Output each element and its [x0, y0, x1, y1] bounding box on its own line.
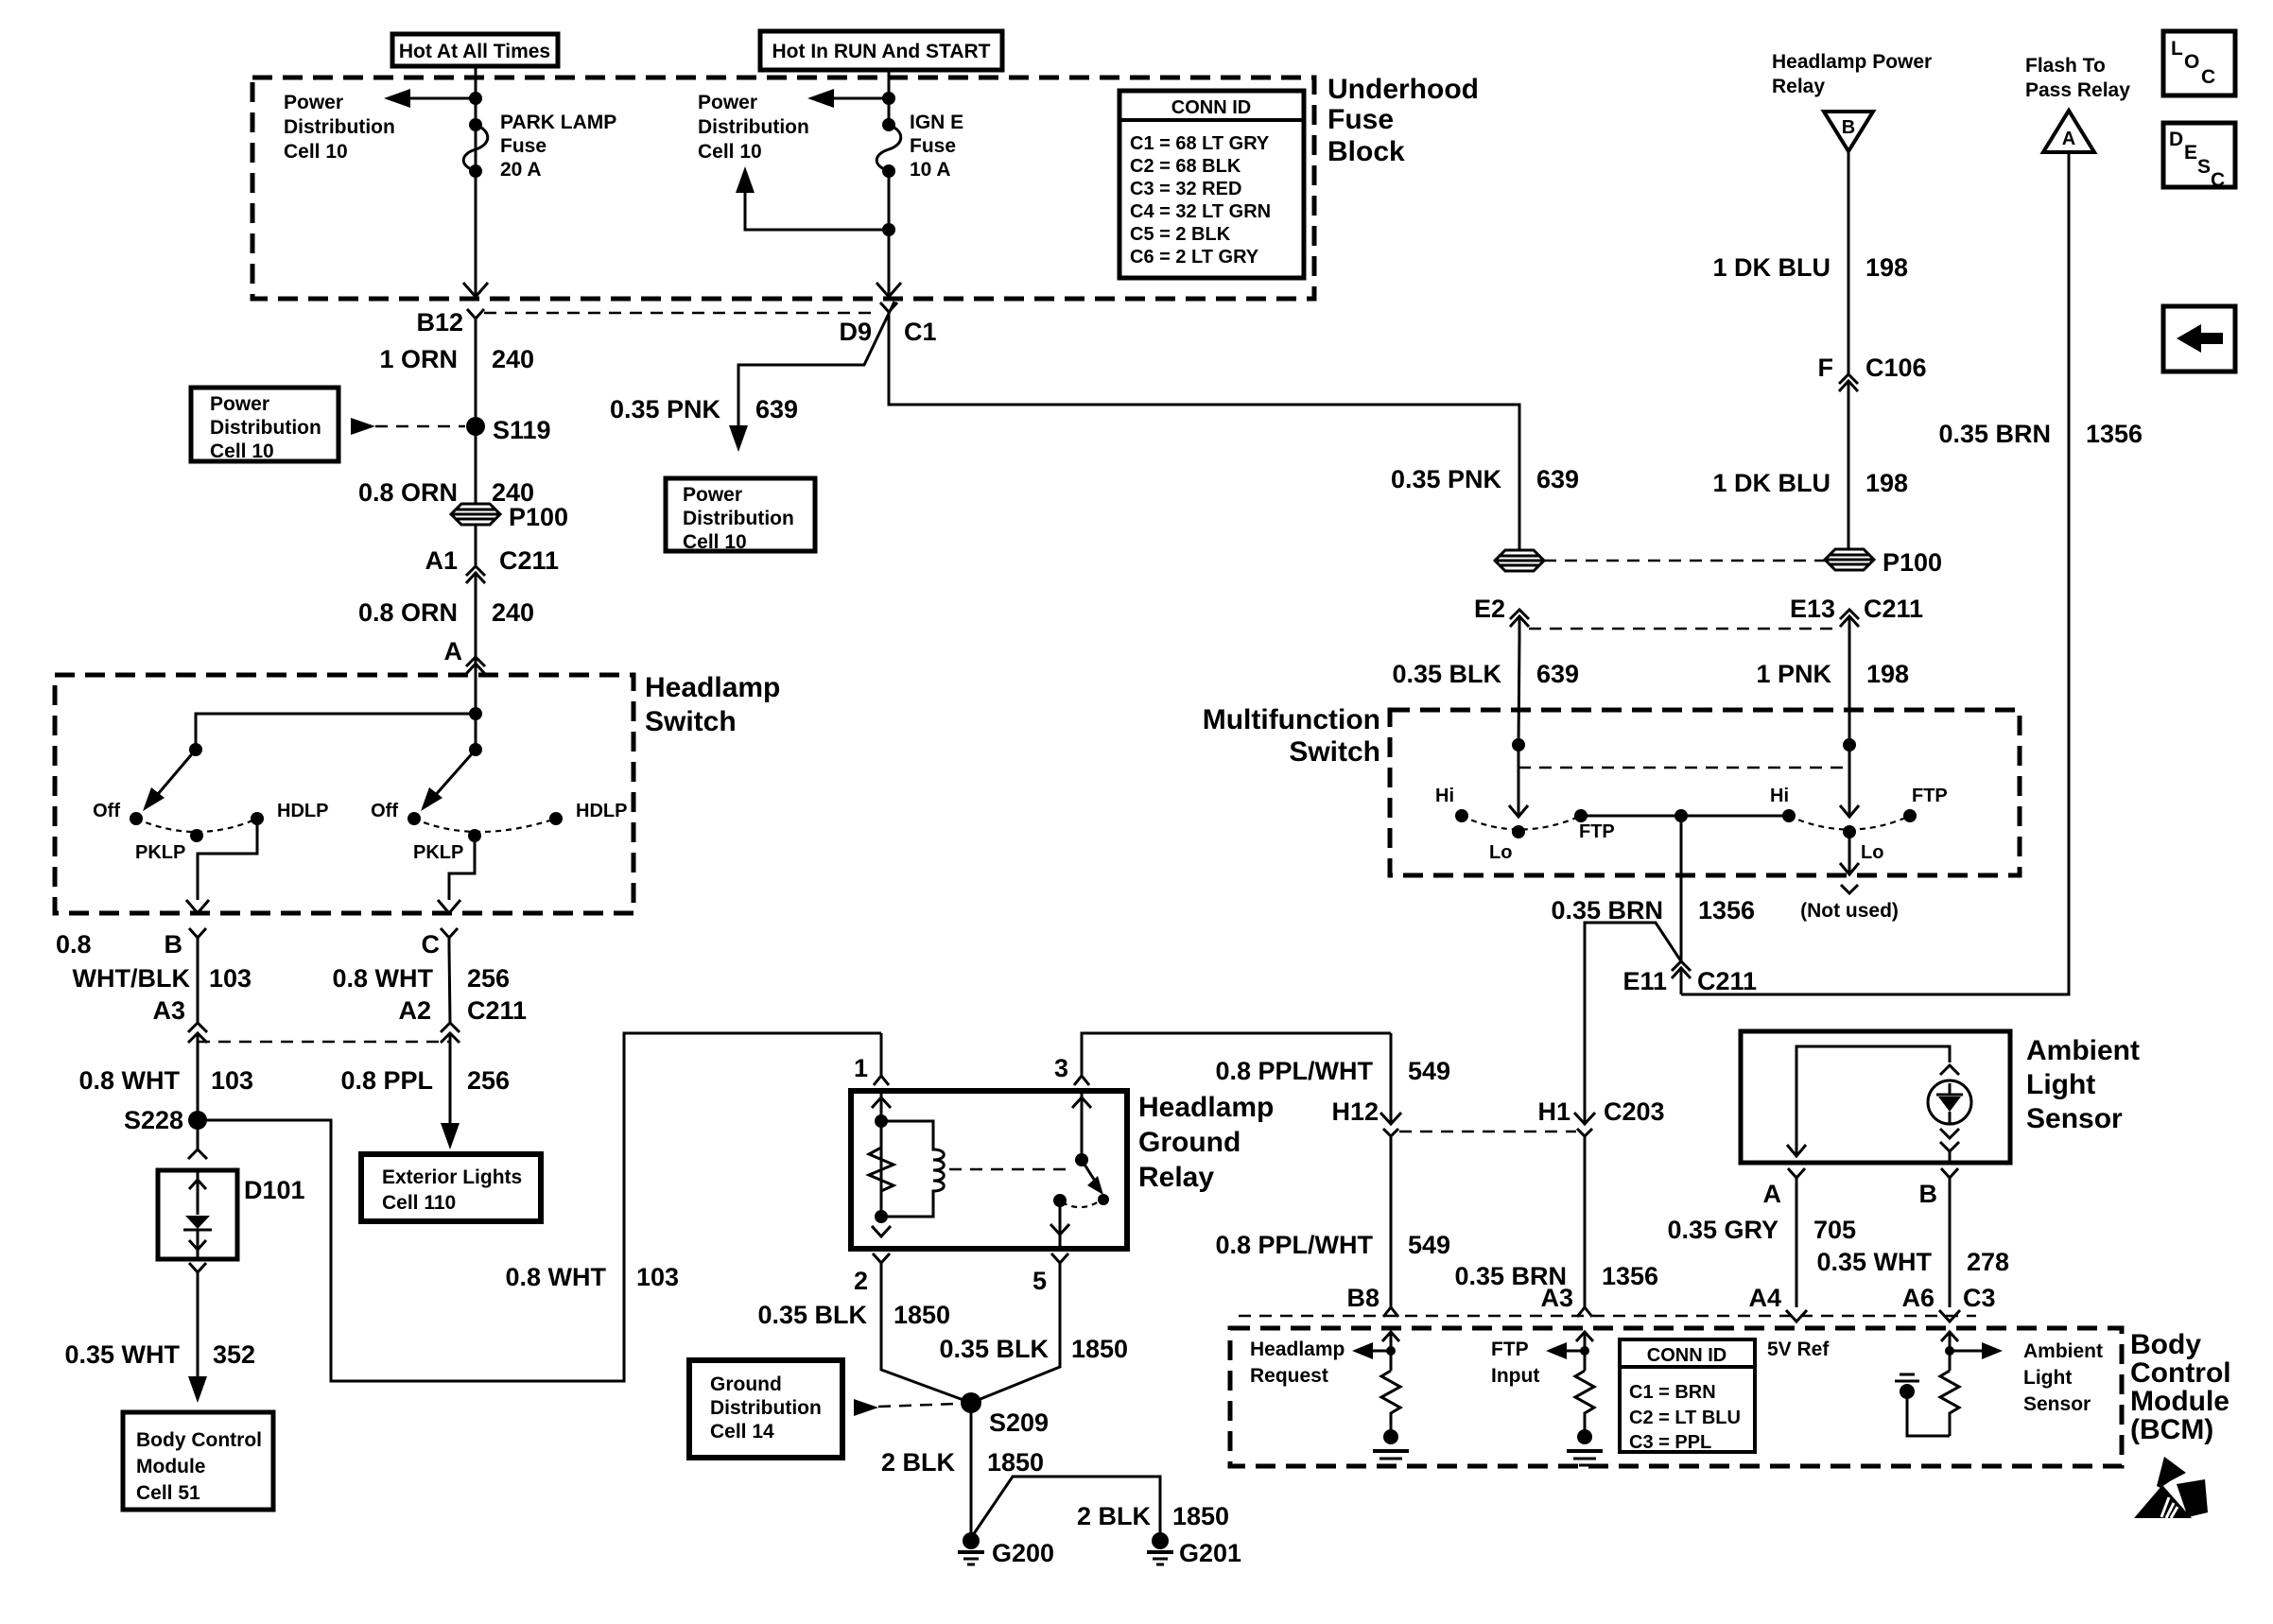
svg-text:Headlamp: Headlamp: [1250, 1339, 1345, 1360]
svg-text:(BCM): (BCM): [2130, 1414, 2213, 1445]
svg-text:10 A: 10 A: [910, 159, 951, 181]
svg-text:WHT/BLK: WHT/BLK: [73, 964, 191, 993]
svg-text:IGN E: IGN E: [910, 112, 963, 133]
contact PKLP (left wafer): [190, 829, 203, 842]
connector D9 / C1 female: [880, 302, 897, 321]
svg-text:Module: Module: [136, 1456, 206, 1477]
dashed wafer arc (left): [1462, 816, 1581, 830]
svg-text:0.8 PPL/WHT: 0.8 PPL/WHT: [1215, 1057, 1373, 1085]
wire PKLP to C output: [449, 836, 475, 900]
svg-text:1356: 1356: [2086, 420, 2143, 448]
svg-text:C6 = 2 LT GRY: C6 = 2 LT GRY: [1130, 247, 1259, 268]
svg-text:1356: 1356: [1602, 1262, 1658, 1290]
node coil bottom: [875, 1210, 888, 1223]
svg-text:Relay: Relay: [1772, 76, 1825, 97]
male arrow C output: [438, 900, 460, 913]
svg-text:0.35 WHT: 0.35 WHT: [64, 1340, 180, 1369]
wire HDLP to B output: [198, 819, 257, 900]
svg-text:Ambient: Ambient: [2023, 1340, 2103, 1362]
svg-text:Power: Power: [683, 484, 742, 506]
splice S119: [466, 417, 485, 436]
node E13 tap: [1843, 738, 1856, 752]
svg-text:0.35 PNK: 0.35 PNK: [610, 395, 721, 423]
connector A1 C211: [466, 566, 485, 576]
svg-text:0.35 BLK: 0.35 BLK: [1392, 660, 1501, 688]
svg-text:(Not used): (Not used): [1800, 900, 1899, 922]
svg-text:Distribution: Distribution: [683, 508, 794, 529]
svg-text:103: 103: [209, 964, 252, 993]
svg-text:0.35 BRN: 0.35 BRN: [1938, 420, 2051, 448]
svg-text:HDLP: HDLP: [576, 801, 627, 821]
connector H1 C203: [1574, 1113, 1595, 1124]
svg-text:0.8 PPL: 0.8 PPL: [340, 1066, 433, 1095]
svg-text:Power: Power: [210, 393, 269, 415]
svg-text:E2: E2: [1474, 595, 1505, 623]
node junction branch to power distribution arrow: [882, 223, 895, 236]
svg-text:3: 3: [1054, 1054, 1068, 1082]
svg-text:Cell 51: Cell 51: [136, 1482, 200, 1504]
svg-text:0.35 GRY: 0.35 GRY: [1667, 1216, 1778, 1244]
wire H1 to BCM A3: [1584, 1146, 1587, 1307]
svg-text:705: 705: [1813, 1216, 1856, 1244]
svg-text:2 BLK: 2 BLK: [881, 1448, 956, 1477]
svg-text:PKLP: PKLP: [413, 842, 463, 863]
svg-text:A6: A6: [1901, 1284, 1935, 1312]
svg-text:Block: Block: [1327, 136, 1405, 167]
svg-text:C1 = BRN: C1 = BRN: [1629, 1382, 1716, 1403]
wire arm to Lo (right wafer): [1848, 745, 1851, 817]
svg-text:P100: P100: [1883, 548, 1942, 577]
dashed connector line P100 to P100: [1544, 560, 1825, 562]
CONN ID table: [1119, 91, 1304, 278]
connector B12 female: [467, 309, 484, 328]
svg-text:B: B: [165, 930, 183, 959]
wire A to BCM A4: [1796, 1186, 1798, 1307]
connector pin 5 below: [1051, 1253, 1068, 1272]
relay stationary contact: [1053, 1194, 1067, 1207]
pin 1: [880, 1033, 883, 1076]
svg-text:F: F: [1818, 354, 1834, 382]
connector C female: [441, 928, 458, 947]
dashed connector row at BCM: [1239, 1315, 1976, 1318]
wire C1 to pink riser: [889, 321, 1519, 550]
wire S228 branch to relay: [198, 1033, 881, 1381]
back arrow box: [2163, 306, 2235, 371]
svg-text:C2 = 68 BLK: C2 = 68 BLK: [1130, 156, 1241, 177]
wire S209 to G200: [970, 1403, 973, 1541]
svg-text:Distribution: Distribution: [710, 1397, 822, 1419]
svg-text:Underhood: Underhood: [1327, 74, 1479, 105]
wire B to A3: [197, 947, 200, 1023]
dashed connector line B12 to D9: [484, 312, 879, 315]
svg-text:Switch: Switch: [1289, 736, 1380, 768]
headlamp ground relay box: [851, 1091, 1127, 1249]
wire into fuse block (IGN E feed): [888, 70, 891, 125]
relay movable arm: [1082, 1160, 1098, 1185]
node BRN tap: [1674, 809, 1688, 822]
wire P100 to C211: [475, 526, 477, 567]
svg-text:Cell 14: Cell 14: [710, 1421, 774, 1443]
svg-text:Hi: Hi: [1770, 786, 1789, 806]
connector H12: [1390, 1033, 1393, 1124]
svg-text:Exterior Lights: Exterior Lights: [382, 1166, 522, 1188]
svg-text:Headlamp: Headlamp: [1138, 1092, 1274, 1123]
connector A below sensor: [1788, 1168, 1805, 1186]
relay arm tip contact: [1098, 1194, 1109, 1205]
contact FTP (right): [1903, 809, 1917, 822]
contact Off (left wafer): [130, 812, 143, 825]
contact HDLP (left wafer): [251, 812, 264, 825]
svg-text:Power: Power: [698, 92, 757, 113]
male arrow B output: [186, 900, 209, 913]
connector arrows into BCM row: [1383, 1307, 1398, 1317]
svg-text:C211: C211: [1697, 967, 1757, 995]
svg-text:Cell 10: Cell 10: [210, 441, 274, 462]
svg-text:Cell 10: Cell 10: [284, 141, 348, 163]
BCM B8 input: headlamp request: [1390, 1334, 1393, 1371]
splice S228: [188, 1111, 207, 1130]
svg-text:E13: E13: [1790, 595, 1835, 623]
svg-text:549: 549: [1408, 1057, 1450, 1085]
wire flash-to-pass riser: [1681, 152, 2069, 994]
contact Off (right wafer): [408, 812, 421, 825]
svg-text:A3: A3: [152, 996, 185, 1025]
svg-text:0.8 WHT: 0.8 WHT: [332, 964, 433, 993]
svg-text:Sensor: Sensor: [2026, 1103, 2123, 1134]
svg-text:1850: 1850: [987, 1448, 1044, 1477]
svg-text:FTP: FTP: [1912, 786, 1948, 806]
connector P100 grommet (pink wire): [1495, 550, 1544, 571]
svg-text:0.35 BLK: 0.35 BLK: [939, 1335, 1049, 1363]
svg-text:Pass Relay: Pass Relay: [2025, 79, 2130, 101]
underhood fuse block dashed box: [252, 78, 1314, 299]
svg-text:Relay: Relay: [1138, 1162, 1214, 1193]
svg-text:0.8 ORN: 0.8 ORN: [358, 478, 458, 507]
node right wafer pivot tap: [469, 743, 482, 756]
box Power Distribution Cell 10 (S119 ref): [191, 388, 338, 461]
wire E13 into MF switch: [1848, 638, 1851, 745]
svg-text:H12: H12: [1331, 1097, 1379, 1126]
svg-text:1850: 1850: [1071, 1335, 1128, 1363]
wire pin5 to S209: [971, 1272, 1060, 1403]
svg-text:198: 198: [1865, 469, 1908, 497]
ground G201: [1152, 1532, 1169, 1549]
dashed connector line H12 to H1: [1399, 1131, 1576, 1133]
connector F C106: [1839, 374, 1858, 384]
resistor (relay): [869, 1121, 894, 1217]
body control module dashed box: [1230, 1328, 2122, 1466]
svg-text:198: 198: [1865, 253, 1908, 282]
svg-text:0.8 ORN: 0.8 ORN: [358, 598, 458, 627]
dashed connector line A3 to A2: [198, 1041, 450, 1044]
node junction on park lamp feed: [469, 92, 482, 105]
svg-text:B: B: [1842, 117, 1855, 138]
svg-text:Hot In RUN And START: Hot In RUN And START: [772, 41, 991, 62]
svg-text:0.8 WHT: 0.8 WHT: [505, 1263, 606, 1291]
svg-text:Switch: Switch: [645, 706, 737, 737]
header box Hot In RUN And START: [760, 31, 1002, 70]
box Exterior Lights Cell 110: [361, 1154, 541, 1221]
svg-text:PKLP: PKLP: [135, 842, 185, 863]
internal reference (A6): [1907, 1399, 1950, 1436]
connector B female: [189, 928, 206, 947]
connector E11 C211: [1672, 961, 1691, 971]
node left wafer pivot: [189, 743, 202, 756]
contact Lo (right): [1843, 825, 1856, 838]
ground (B8): [1373, 1449, 1409, 1453]
diode symbol: [197, 1170, 200, 1215]
wire C106 to P100: [1848, 403, 1850, 549]
svg-text:B: B: [1919, 1180, 1938, 1208]
svg-text:352: 352: [213, 1340, 255, 1369]
wire H12 to BCM B8: [1390, 1146, 1393, 1307]
svg-text:A: A: [444, 637, 463, 665]
svg-text:Flash To: Flash To: [2025, 55, 2106, 77]
connector P100 grommet: [451, 504, 500, 525]
svg-text:Body Control: Body Control: [136, 1429, 262, 1451]
wire fuse to B12: [475, 171, 477, 297]
dashed link between switch wafers: [1518, 767, 1849, 769]
svg-text:Off: Off: [93, 801, 120, 821]
wire C211 to headlamp switch: [475, 595, 477, 682]
svg-text:B8: B8: [1346, 1284, 1379, 1312]
svg-text:L: L: [2171, 38, 2183, 60]
fuse IGN E 10A: [882, 118, 895, 131]
connector A3: [188, 1023, 207, 1032]
pin 2 wire inside: [872, 1226, 891, 1236]
svg-text:E11: E11: [1622, 967, 1667, 995]
svg-text:1: 1: [854, 1054, 868, 1082]
wire slash branch at E11 to H1: [1585, 923, 1681, 1124]
svg-text:FTP: FTP: [1491, 1339, 1529, 1360]
svg-text:103: 103: [636, 1263, 679, 1291]
relay contact pivot: [1075, 1153, 1088, 1166]
wire A2 to Exterior Lights: [449, 1052, 452, 1125]
svg-text:1356: 1356: [1698, 896, 1755, 924]
svg-text:HDLP: HDLP: [277, 801, 328, 821]
contact Lo (left): [1512, 825, 1525, 838]
pin 3 riser: [1082, 1033, 1391, 1076]
connector pin 2 below: [873, 1253, 890, 1272]
dashed wafer arc left: [136, 819, 257, 832]
ESD warning symbol: [2157, 1457, 2186, 1488]
svg-text:0.35 BLK: 0.35 BLK: [757, 1301, 867, 1329]
svg-text:Headlamp: Headlamp: [645, 672, 780, 703]
svg-text:Ground: Ground: [1138, 1127, 1241, 1158]
svg-text:D9: D9: [839, 318, 872, 346]
svg-text:Lo: Lo: [1861, 842, 1883, 863]
dashed connector line E2 to E13: [1529, 628, 1839, 631]
contact FTP (left): [1574, 809, 1588, 822]
ambient light sensor box: [1741, 1031, 2010, 1163]
svg-text:Fuse: Fuse: [910, 135, 956, 157]
svg-text:Ground: Ground: [710, 1373, 782, 1395]
svg-text:C: C: [422, 930, 441, 959]
svg-text:0.8 PPL/WHT: 0.8 PPL/WHT: [1215, 1231, 1373, 1259]
svg-text:Distribution: Distribution: [210, 417, 321, 439]
connector to D101: [188, 1149, 207, 1159]
svg-text:Sensor: Sensor: [2023, 1393, 2091, 1415]
connector B below sensor: [1941, 1168, 1958, 1186]
svg-text:C5 = 2 BLK: C5 = 2 BLK: [1130, 224, 1231, 245]
svg-text:639: 639: [755, 395, 798, 423]
svg-text:Distribution: Distribution: [284, 116, 395, 138]
wire fuse to D9: [888, 171, 891, 297]
svg-text:1 ORN: 1 ORN: [379, 345, 458, 373]
BCM A6 input: ambient light sensor: [1949, 1334, 1952, 1371]
wire slash branch at D9 (0.35 PNK): [738, 302, 894, 427]
dashed wafer arc right: [414, 819, 556, 832]
svg-text:Power: Power: [284, 92, 343, 113]
svg-text:C203: C203: [1604, 1097, 1665, 1126]
svg-text:CONN ID: CONN ID: [1171, 97, 1251, 118]
ground (A3): [1567, 1449, 1603, 1453]
svg-text:Cell 110: Cell 110: [382, 1192, 456, 1214]
svg-text:Input: Input: [1491, 1365, 1539, 1387]
contact Hi (left): [1455, 809, 1468, 822]
svg-text:Request: Request: [1250, 1365, 1328, 1387]
box Power Distribution Cell 10 (PNK ref): [666, 478, 815, 551]
svg-text:Fuse: Fuse: [500, 135, 547, 157]
wire branch to G201: [973, 1477, 1160, 1535]
dashed wafer arc (right): [1789, 816, 1910, 830]
arrow and dashed ref line to S119: [351, 418, 375, 435]
splice S209: [961, 1392, 981, 1413]
svg-text:Distribution: Distribution: [698, 116, 809, 138]
svg-text:P100: P100: [509, 503, 568, 531]
svg-text:C2 = LT BLU: C2 = LT BLU: [1629, 1408, 1741, 1428]
svg-text:S: S: [2197, 156, 2211, 178]
svg-text:198: 198: [1866, 660, 1909, 688]
svg-text:Multifunction: Multifunction: [1203, 704, 1380, 735]
switch arm left wafer: [147, 750, 196, 806]
contact PKLP (right wafer): [468, 829, 481, 842]
wire triangle B to C106: [1848, 151, 1850, 374]
svg-text:1850: 1850: [894, 1301, 950, 1329]
box Body Control Module Cell 51: [123, 1412, 273, 1510]
svg-text:Ambient: Ambient: [2026, 1035, 2140, 1066]
svg-text:C106: C106: [1865, 354, 1927, 382]
connector arrows into BCM row (A4, A6): [1786, 1310, 1807, 1322]
svg-text:G201: G201: [1179, 1539, 1241, 1567]
svg-text:D101: D101: [244, 1176, 305, 1204]
svg-text:Off: Off: [371, 801, 398, 821]
svg-text:240: 240: [492, 345, 534, 373]
svg-text:C211: C211: [467, 996, 527, 1025]
svg-text:C1 = 68 LT GRY: C1 = 68 LT GRY: [1130, 133, 1270, 154]
wire BRN tap to E11: [1680, 816, 1683, 961]
svg-text:Hi: Hi: [1435, 786, 1454, 806]
svg-text:C4 = 32 LT GRN: C4 = 32 LT GRN: [1130, 201, 1271, 222]
svg-text:278: 278: [1967, 1248, 2009, 1276]
node junction on IGN E feed: [882, 92, 895, 105]
svg-text:256: 256: [467, 964, 510, 993]
svg-text:20 A: 20 A: [500, 159, 542, 181]
svg-text:S228: S228: [124, 1106, 183, 1134]
switch arm right wafer: [425, 750, 476, 806]
svg-text:639: 639: [1536, 660, 1579, 688]
connector not used: [1841, 885, 1858, 893]
svg-text:O: O: [2184, 51, 2199, 73]
svg-text:2 BLK: 2 BLK: [1077, 1502, 1152, 1530]
wire branch with up arrow: [745, 189, 889, 230]
connector P100 grommet (right): [1825, 549, 1874, 570]
node tap to left wafer: [469, 707, 482, 720]
ground G200: [963, 1532, 980, 1549]
svg-text:0.35 PNK: 0.35 PNK: [1391, 465, 1502, 493]
resistor (B8 pulldown): [1381, 1371, 1400, 1431]
svg-text:0.35 BRN: 0.35 BRN: [1551, 896, 1663, 924]
fuse PARK LAMP 20A: [469, 118, 482, 131]
svg-text:H1: H1: [1537, 1097, 1570, 1126]
wire to left wafer: [196, 714, 476, 750]
svg-text:C: C: [2211, 169, 2225, 191]
contact Hi (right): [1782, 809, 1796, 822]
svg-text:PARK LAMP: PARK LAMP: [500, 112, 616, 133]
connector below D101: [189, 1263, 206, 1282]
svg-text:CONN ID: CONN ID: [1647, 1345, 1726, 1366]
BCM A3 input: FTP input: [1584, 1334, 1587, 1371]
box Ground Distribution Cell 14: [689, 1360, 842, 1458]
arrow and dashed ref to S209: [854, 1399, 878, 1416]
wire arm to Lo (left wafer): [1518, 745, 1520, 817]
wire switch feed: [475, 682, 477, 750]
wire D101 to BCM cell 51: [197, 1282, 200, 1378]
svg-text:1 DK BLU: 1 DK BLU: [1712, 253, 1831, 282]
wire E2 into MF switch: [1518, 638, 1519, 745]
multifunction switch dashed box: [1390, 710, 2020, 875]
svg-text:Cell 10: Cell 10: [683, 531, 747, 553]
svg-text:2: 2: [854, 1267, 868, 1295]
headlamp switch dashed box: [55, 675, 633, 913]
node E2 tap: [1512, 738, 1525, 752]
svg-text:A3: A3: [1540, 1284, 1573, 1312]
svg-text:1 DK BLU: 1 DK BLU: [1712, 469, 1831, 497]
svg-text:Light: Light: [2026, 1069, 2095, 1100]
svg-text:5: 5: [1032, 1267, 1047, 1295]
svg-text:5V Ref: 5V Ref: [1767, 1339, 1830, 1360]
svg-text:Fuse: Fuse: [1327, 104, 1394, 135]
svg-text:C211: C211: [1864, 595, 1923, 623]
pin 5 wire inside: [1059, 1201, 1062, 1249]
LOC reference box: [2163, 31, 2235, 95]
wire from Hot At All Times into fuse block: [475, 66, 477, 171]
svg-text:0.8: 0.8: [56, 930, 92, 959]
off-page triangle A: [2043, 111, 2094, 152]
svg-text:A4: A4: [1748, 1284, 1781, 1312]
node coil top: [875, 1114, 888, 1128]
svg-text:103: 103: [211, 1066, 253, 1095]
diode D101 box: [158, 1170, 237, 1259]
svg-text:C3 = PPL: C3 = PPL: [1629, 1432, 1711, 1453]
svg-text:549: 549: [1408, 1231, 1450, 1259]
svg-text:240: 240: [492, 598, 534, 627]
wire pin2 to S209: [881, 1272, 971, 1403]
svg-text:0.35 WHT: 0.35 WHT: [1816, 1248, 1932, 1276]
coil (relay): [881, 1121, 944, 1217]
svg-text:C: C: [2201, 66, 2215, 88]
svg-text:C3: C3: [1963, 1284, 1996, 1312]
sensor internal wire loop: [1796, 1046, 1950, 1156]
svg-text:A2: A2: [398, 996, 431, 1025]
svg-text:E: E: [2184, 142, 2197, 164]
header box Hot At All Times: [392, 34, 558, 66]
connector A2 C211: [441, 1023, 460, 1032]
svg-text:A: A: [2062, 129, 2075, 149]
svg-text:639: 639: [1536, 465, 1579, 493]
wire E11 to flash-to-pass: [1680, 990, 1683, 994]
wire arrow to Power Distribution Cell 10: [405, 97, 476, 100]
